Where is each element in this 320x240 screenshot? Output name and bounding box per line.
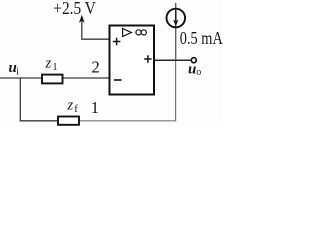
wire z1 to inverting input — [63, 77, 109, 79]
wire ui input horizontal — [0, 77, 41, 79]
wire left vertical junction down — [19, 78, 21, 121]
wire right vertical feedback up — [175, 60, 177, 121]
svg-text:1: 1 — [52, 62, 57, 73]
op-amp + input label — [113, 38, 121, 46]
op-amp infinity symbol — [136, 30, 147, 35]
svg-text:+2.5 V: +2.5 V — [53, 0, 96, 18]
wire output horizontal — [155, 59, 191, 61]
op-amp - input label — [114, 79, 122, 81]
svg-text:i: i — [16, 66, 19, 77]
current source arrow — [175, 10, 177, 22]
current source I1 circle — [167, 9, 186, 28]
svg-text:u: u — [188, 62, 196, 78]
svg-text:1: 1 — [91, 98, 99, 117]
op-amp + output label — [144, 55, 151, 62]
wire zf to right vertical — [80, 120, 176, 122]
svg-text:2: 2 — [92, 57, 100, 76]
power +2.5V arrow — [81, 20, 83, 39]
svg-text:z: z — [67, 98, 74, 114]
svg-text:0.5 mA: 0.5 mA — [180, 28, 223, 48]
svg-text:o: o — [196, 67, 201, 78]
svg-text:z: z — [45, 56, 52, 72]
op-amp U1 box — [110, 26, 155, 95]
resistor z1 box — [42, 75, 63, 84]
output terminal circle — [191, 58, 196, 63]
svg-text:f: f — [74, 104, 78, 115]
op-amp triangle symbol — [123, 29, 132, 37]
wire power to op-amp + input — [81, 38, 109, 40]
wire bottom left to zf — [20, 120, 57, 122]
resistor zf box — [58, 117, 79, 125]
wire current source vertical — [175, 3, 177, 60]
